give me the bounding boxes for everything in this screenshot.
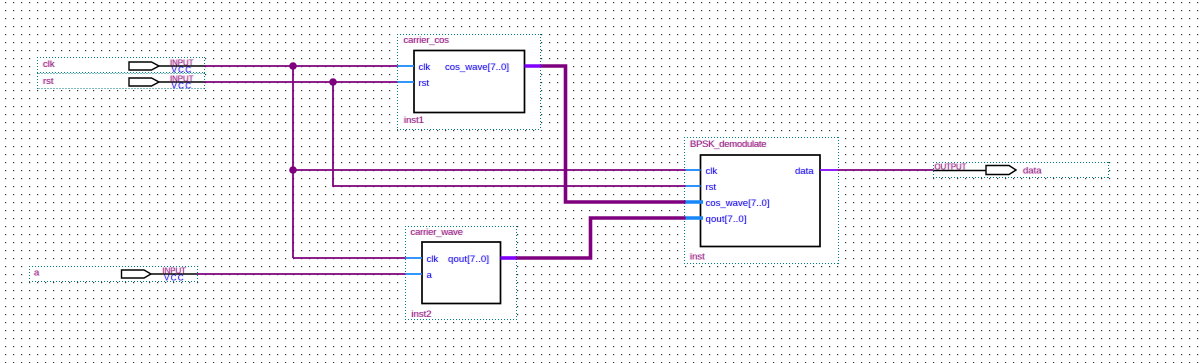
- input pin symbol (clk): [129, 62, 205, 70]
- wire clk vertical branch: [292, 66, 294, 258]
- wire clk from pin to carrier_cos: [205, 65, 398, 67]
- svg-text:OUTPUT: OUTPUT: [935, 163, 967, 172]
- svg-text:rst: rst: [43, 76, 54, 87]
- svg-text:VCC: VCC: [172, 82, 192, 91]
- junction rst: [329, 78, 337, 86]
- svg-text:VCC: VCC: [164, 274, 184, 283]
- wire data BPSK to output pin: [838, 169, 934, 171]
- svg-text:inst1: inst1: [404, 115, 424, 126]
- svg-text:clk: clk: [706, 166, 718, 177]
- svg-text:inst2: inst2: [412, 309, 432, 320]
- svg-text:a: a: [427, 270, 433, 281]
- output pin data: [933, 162, 1109, 178]
- svg-text:carrier_wave: carrier_wave: [411, 227, 464, 238]
- bus qout[7..0] carrier_wave to BPSK: [517, 218, 686, 258]
- block body BPSK_demodulate: [701, 155, 821, 247]
- svg-text:qout[7..0]: qout[7..0]: [706, 214, 747, 225]
- input pin a: [29, 266, 198, 283]
- input pin clk: [37, 57, 205, 75]
- input pin symbol (a): [122, 270, 198, 278]
- port stub cos_wave[7..0] (output bus): [525, 64, 542, 68]
- module instance carrier_wave (inst2): [405, 226, 517, 320]
- svg-text:clk: clk: [43, 59, 55, 70]
- svg-text:cos_wave[7..0]: cos_wave[7..0]: [706, 198, 770, 209]
- port stub rst (input): [685, 185, 701, 187]
- junction clk at carrier_cos feed: [289, 62, 297, 70]
- port stub clk (input): [406, 257, 423, 259]
- bus cos_wave[7..0] carrier_cos to BPSK: [541, 66, 686, 202]
- svg-text:inst: inst: [690, 252, 705, 263]
- svg-text:clk: clk: [427, 254, 439, 265]
- input pin rst: [37, 73, 205, 91]
- svg-text:carrier_cos: carrier_cos: [404, 35, 450, 46]
- output pin symbol wire lead: [934, 170, 987, 172]
- svg-text:data: data: [1023, 166, 1042, 177]
- svg-text:clk: clk: [419, 62, 431, 73]
- input pin symbol (rst): [129, 78, 205, 86]
- svg-text:cos_wave[7..0]: cos_wave[7..0]: [445, 62, 509, 73]
- port stub clk (input): [398, 65, 415, 67]
- port stub data (output): [820, 169, 838, 171]
- port stub qout[7..0] (input bus): [685, 216, 703, 220]
- svg-text:rst: rst: [419, 78, 430, 89]
- port stub a (input): [406, 273, 423, 275]
- module instance BPSK_demodulate (inst): [684, 137, 839, 264]
- svg-text:rst: rst: [706, 182, 717, 193]
- module instance carrier_cos (inst1): [397, 34, 541, 130]
- wire rst from pin to carrier_cos: [205, 81, 398, 83]
- svg-text:a: a: [34, 268, 40, 279]
- svg-text:BPSK_demodulate: BPSK_demodulate: [690, 139, 767, 150]
- svg-text:qout[7..0]: qout[7..0]: [448, 254, 489, 265]
- output pin symbol (data): [986, 166, 1016, 175]
- port stub cos_wave[7..0] (input bus): [685, 200, 703, 204]
- port stub clk (input): [685, 169, 701, 171]
- wire a from pin to carrier_wave: [198, 273, 406, 275]
- svg-text:data: data: [795, 166, 814, 177]
- wire rst branch to BPSK_demodulate: [333, 82, 686, 186]
- port stub qout[7..0] (output bus): [501, 256, 517, 260]
- port stub rst (input): [398, 81, 415, 83]
- wire clk to carrier_wave: [293, 257, 406, 259]
- junction clk at BPSK feed: [289, 166, 297, 174]
- block body carrier_cos: [414, 51, 525, 113]
- block body carrier_wave: [422, 242, 501, 304]
- wire clk to BPSK_demodulate: [293, 169, 686, 171]
